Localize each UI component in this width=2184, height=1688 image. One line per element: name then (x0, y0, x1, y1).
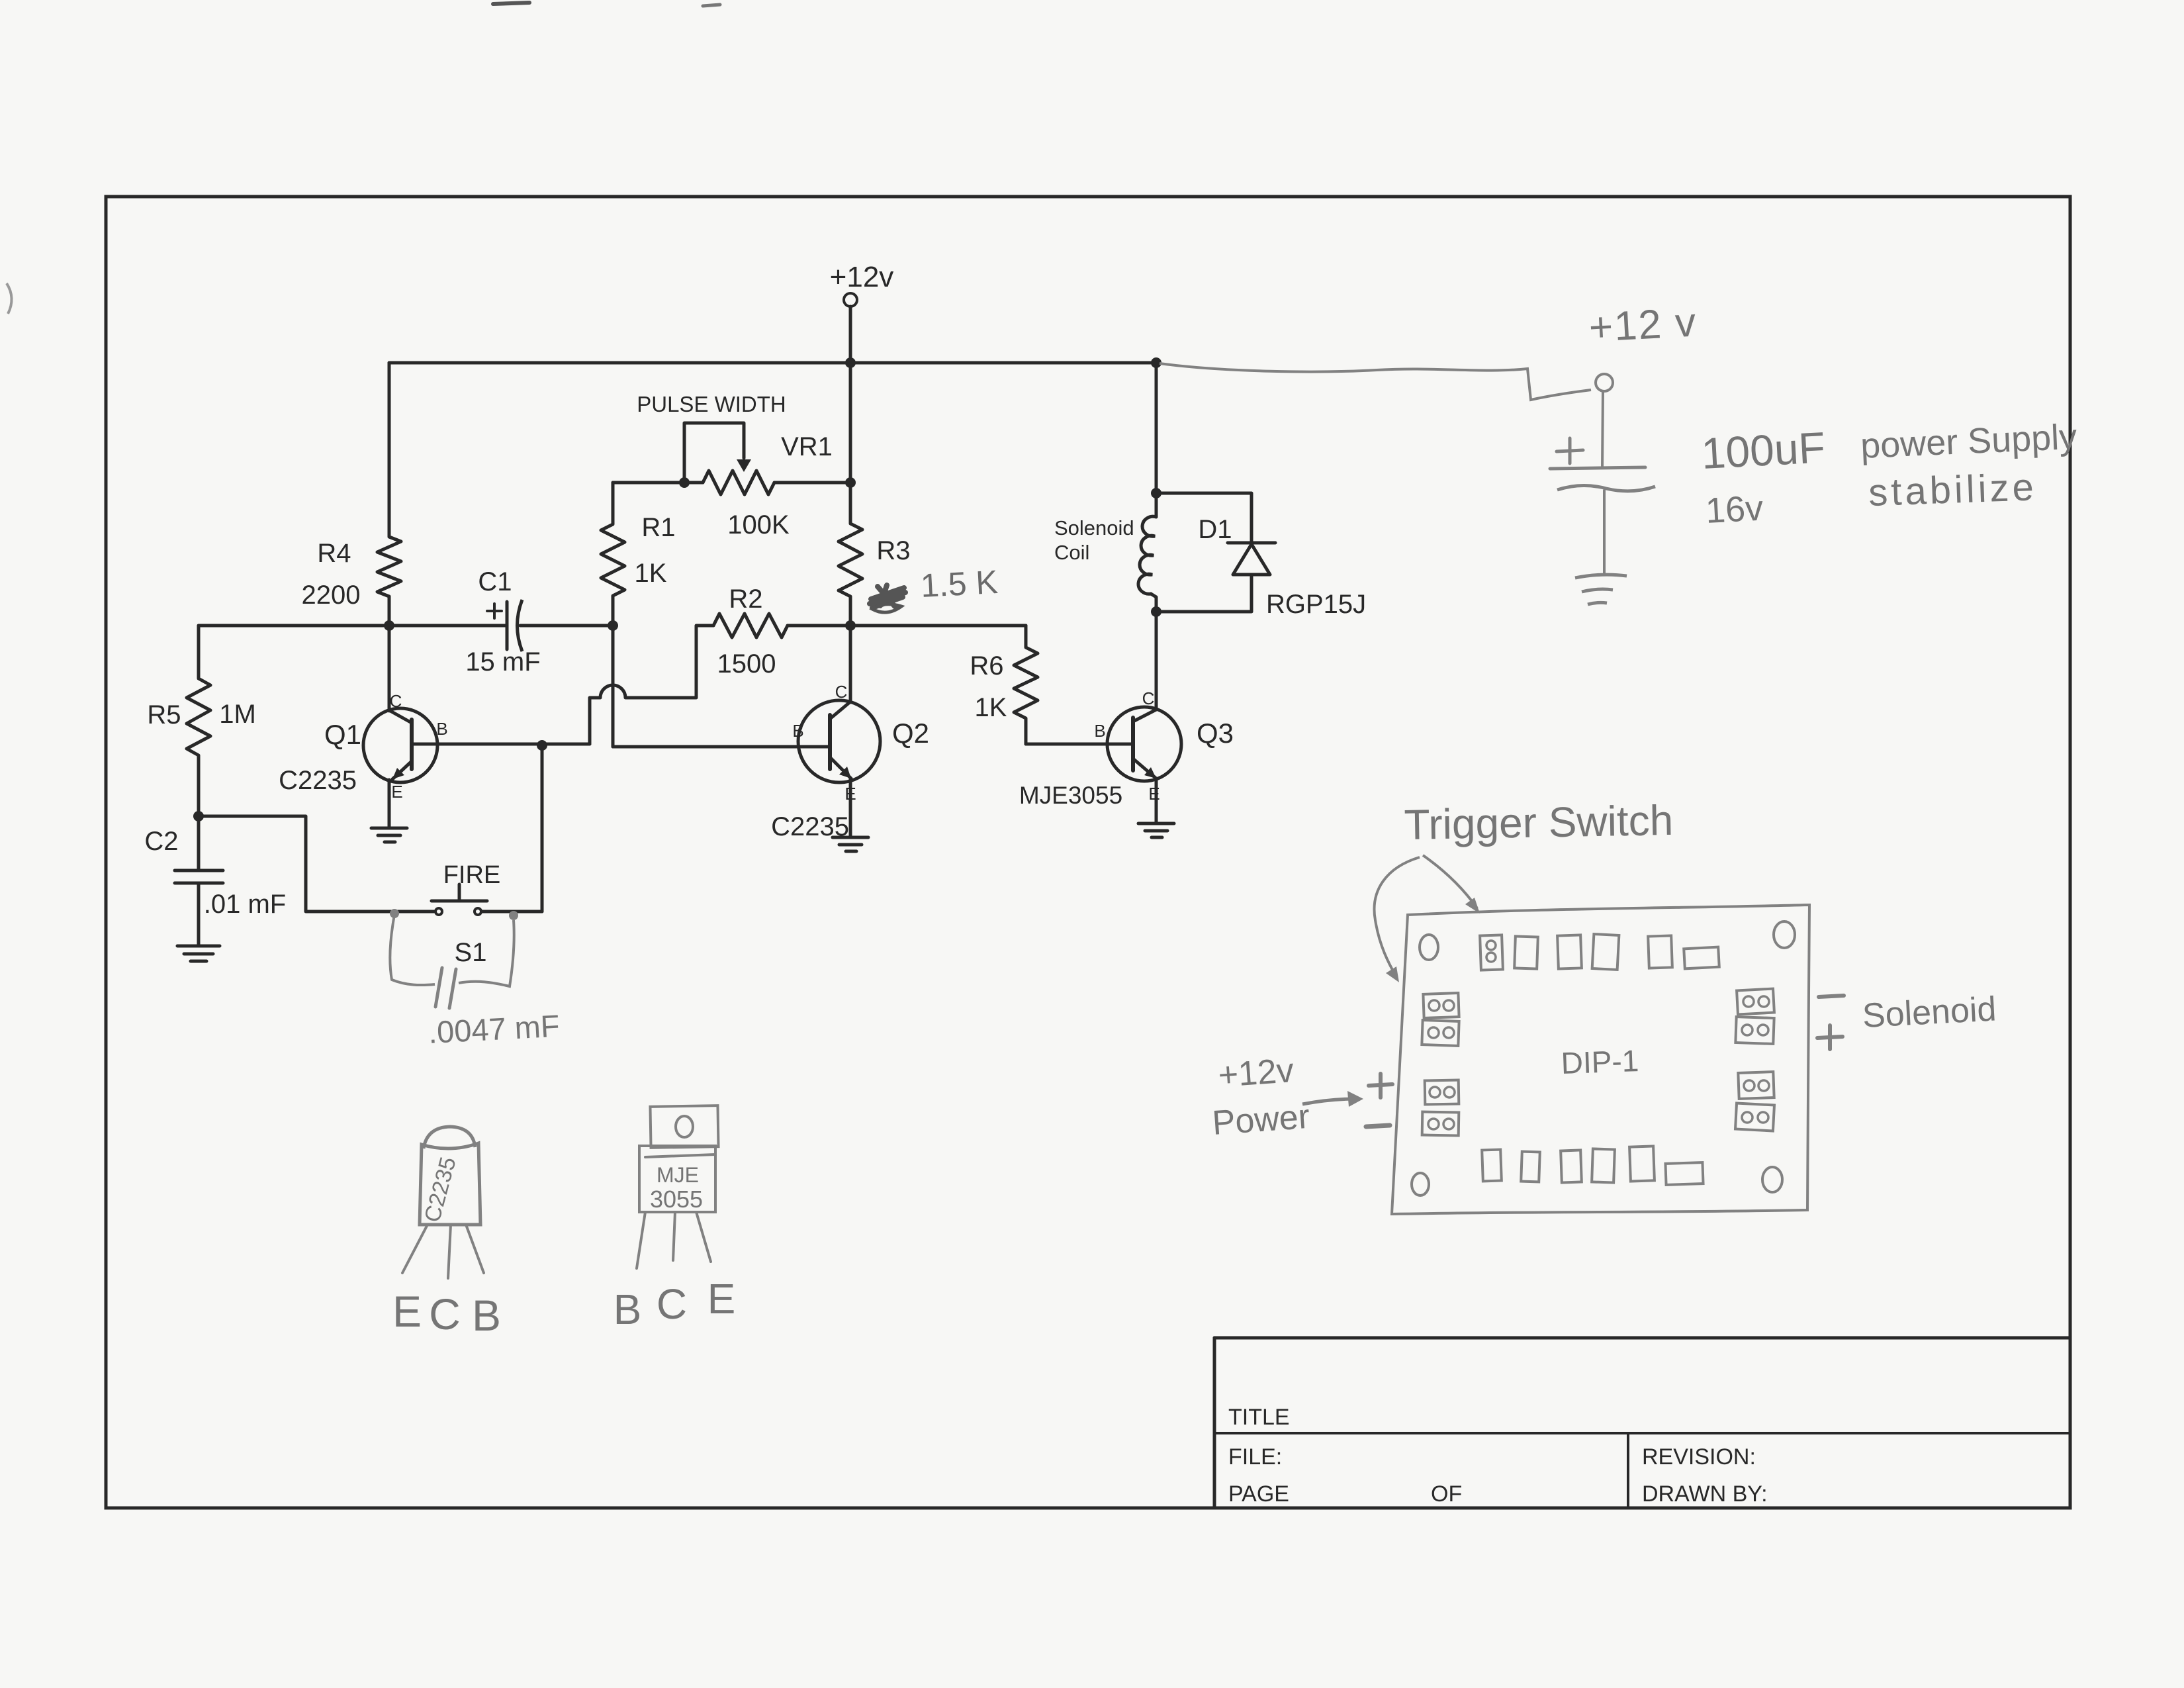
PCB top pad 6 (wide) (1684, 947, 1719, 969)
svg-text:.01 mF: .01 mF (204, 890, 286, 919)
svg-text:E: E (392, 1287, 422, 1336)
label C1 value 15 mF (465, 647, 540, 677)
label R3 (876, 536, 910, 565)
wire solenoid top lead (1155, 493, 1158, 517)
PCB top pad 4 (1592, 934, 1619, 970)
PCB right pad 4 (1735, 1103, 1774, 1131)
svg-text:B: B (614, 1286, 642, 1333)
resistor R1 (601, 483, 625, 626)
junction rail at R3 column (845, 357, 856, 368)
svg-text:Coil: Coil (1054, 541, 1089, 564)
pencil minus solenoid (1819, 996, 1844, 997)
pencil terminal circle (1596, 374, 1613, 391)
pencil capacitor 100uF (1550, 467, 1655, 491)
label R5 value 1M (219, 700, 256, 729)
PCB left pad 3 (+12v +) (1425, 1080, 1459, 1105)
PCB bottom pad 6 (wide) (1665, 1162, 1703, 1185)
handwritten Solenoid (right) (1862, 990, 1997, 1035)
label Q2 (892, 718, 929, 749)
pencil blob S1 right tap (509, 911, 518, 920)
svg-text:R1: R1 (641, 513, 675, 542)
PCB left pad 2 (1422, 1020, 1459, 1046)
handwritten R3 value 1.5 K (920, 563, 999, 604)
diode D1 (1228, 543, 1275, 575)
wire VR1 right lead (774, 481, 850, 485)
sketch C2235 leg E (402, 1225, 428, 1273)
label Q3 type MJE3055 (1019, 782, 1122, 809)
svg-text:+12v: +12v (1217, 1051, 1295, 1095)
sketch MJE3055 leg C (673, 1212, 675, 1260)
title block label REVISION: (1642, 1444, 1756, 1470)
ground below Q3 (1138, 823, 1174, 837)
label R6 value 1K (975, 693, 1007, 722)
label R1 value 1K (635, 559, 667, 588)
svg-text:E: E (391, 782, 402, 802)
sketch MJE3055 pin letter B (614, 1286, 642, 1333)
label DIP-1 (1561, 1043, 1639, 1080)
label R2 (729, 585, 762, 614)
capacitor C1 (507, 600, 522, 651)
svg-text:1.5 K: 1.5 K (920, 563, 999, 604)
wire node A left (R5 to C1) (199, 624, 507, 628)
label FIRE (443, 861, 501, 889)
PCB bottom pad 5 (1629, 1146, 1655, 1181)
pin label Q3 B (1094, 721, 1105, 741)
svg-text:FILE:: FILE: (1228, 1444, 1282, 1470)
node +12v terminal (844, 293, 857, 306)
pin label Q2 C (835, 682, 848, 702)
capacitor S1 pencil plates (435, 968, 456, 1008)
pin label Q1 E (391, 782, 402, 802)
ground below C2 (177, 946, 220, 961)
wire Q1 collector (388, 626, 391, 711)
handwritten Trigger Switch (1404, 796, 1674, 849)
label R1 (641, 513, 675, 542)
title block label PAGE (1228, 1481, 1289, 1507)
handwritten +12 v (top right) (1588, 300, 1698, 351)
wire rail to solenoid (1155, 363, 1158, 493)
label R5 (147, 700, 181, 729)
svg-text:D1: D1 (1198, 515, 1232, 544)
wire C2 to ground (197, 883, 201, 946)
label D1 (1198, 515, 1232, 544)
svg-text:B: B (472, 1291, 501, 1340)
svg-text:1K: 1K (975, 693, 1007, 722)
junction solenoid bottom (1151, 606, 1161, 617)
VR1 wiper arrowhead (737, 459, 751, 472)
wire node A right (C1 to R1) (520, 624, 613, 628)
svg-text:C2: C2 (144, 827, 178, 856)
wire Q2 base (613, 745, 830, 749)
PCB right pad 3 (1738, 1072, 1774, 1099)
pencil wire rail to stabilizer cap (1160, 363, 1591, 400)
svg-text:C: C (657, 1280, 687, 1328)
svg-text:VR1: VR1 (781, 432, 833, 461)
solenoid coil (1138, 516, 1156, 597)
label Q2 type C2235 (771, 812, 849, 841)
junction node A at R4 bottom (384, 620, 394, 631)
handwritten 100uF (1700, 422, 1827, 478)
svg-text:OF: OF (1431, 1481, 1462, 1507)
label C1 (478, 567, 512, 596)
PCB top pad 1 (trigger header) (1480, 935, 1503, 970)
ground below Q2 (833, 837, 868, 851)
sketch MJE3055 leg E (696, 1212, 711, 1262)
transistor Q1 C2235 (363, 708, 437, 782)
label Q1 (324, 719, 361, 750)
svg-text:R6: R6 (970, 651, 1003, 680)
svg-text:PULSE WIDTH: PULSE WIDTH (637, 392, 786, 416)
pencil swirl arrow (1375, 857, 1420, 982)
svg-text:1K: 1K (635, 559, 667, 588)
potentiometer VR1 (703, 471, 774, 494)
pencil plus power (1369, 1074, 1392, 1098)
svg-text:16v: 16v (1704, 489, 1764, 531)
pencil capacitor 100uF plus sign (1557, 438, 1583, 463)
wire Q1 base drop (541, 745, 544, 912)
svg-text:Q3: Q3 (1197, 718, 1234, 749)
svg-text:100K: 100K (727, 510, 790, 539)
wire R5 bottom to C2 (197, 816, 201, 870)
wire Q3 emitter (1155, 780, 1158, 823)
pin label Q1 C (390, 691, 402, 711)
title block label TITLE (1228, 1405, 1290, 1430)
svg-text:Trigger Switch: Trigger Switch (1404, 796, 1674, 849)
wire R2 to Q2 collector node (788, 624, 850, 628)
svg-text:+12 v: +12 v (1588, 300, 1698, 351)
svg-text:15 mF: 15 mF (465, 647, 540, 677)
handwritten power Supply (1860, 417, 2078, 466)
PCB top pad 5 (1648, 935, 1672, 968)
junction rail at solenoid column (1151, 357, 1161, 368)
label VR1 value 100K (727, 510, 790, 539)
label R4 (317, 539, 351, 568)
PCB board outline (1392, 905, 1809, 1214)
svg-text:Solenoid: Solenoid (1862, 990, 1997, 1035)
svg-text:C: C (1142, 688, 1155, 708)
resistor R6 (1014, 626, 1038, 744)
resistor R4 (377, 363, 401, 626)
svg-text:Solenoid: Solenoid (1054, 516, 1134, 539)
label C2 (144, 827, 178, 856)
PCB bottom pad 3 (1561, 1150, 1582, 1182)
scan mark left edge (7, 283, 12, 314)
label R6 (970, 651, 1003, 680)
pencil ground below cap (1575, 575, 1627, 604)
handwritten 16v (1704, 489, 1764, 531)
svg-text:MJE: MJE (657, 1163, 699, 1187)
label C2 value .01 mF (204, 890, 286, 919)
wire +12v terminal to rail (849, 306, 852, 363)
wire R1 top to VR1 (613, 481, 684, 485)
title block label DRAWN BY: (1642, 1481, 1768, 1507)
svg-text:PAGE: PAGE (1228, 1481, 1289, 1507)
resistor R3 (839, 363, 862, 626)
capacitor C2 (175, 870, 223, 883)
label D1 type RGP15J (1266, 590, 1366, 619)
svg-text:R4: R4 (317, 539, 351, 568)
wire D1 bottom branch (1156, 575, 1251, 612)
label Q1 type C2235 (279, 766, 357, 795)
pencil arrow to board pad (1423, 855, 1480, 914)
wire C2 node to FIRE switch (199, 816, 434, 912)
svg-text:DIP-1: DIP-1 (1561, 1043, 1639, 1080)
PCB left pad 4 (+12v -) (1422, 1112, 1459, 1136)
title block label OF (1431, 1481, 1462, 1507)
svg-text:B: B (436, 719, 447, 739)
svg-text:.0047 mF: .0047 mF (428, 1008, 561, 1050)
svg-text:E: E (707, 1275, 736, 1323)
pin label Q3 E (1148, 784, 1160, 804)
svg-text:S1: S1 (455, 938, 487, 967)
scan mark top (493, 3, 720, 6)
svg-text:1M: 1M (219, 700, 256, 729)
wire +12v rail (389, 361, 1156, 365)
pencil blob S1 left tap (390, 909, 399, 918)
svg-text:100uF: 100uF (1700, 422, 1827, 478)
handwritten Power (1211, 1098, 1311, 1143)
junction R5 bottom / C2 top (193, 811, 204, 821)
resistor R5 (187, 626, 210, 816)
svg-text:3055: 3055 (650, 1186, 703, 1213)
sketch C2235 leg C (448, 1225, 451, 1278)
wire Q2 collector (849, 626, 852, 702)
wire Q1 base (412, 743, 590, 746)
wire Q1 emitter (388, 780, 391, 828)
ground below Q1 (371, 828, 407, 842)
svg-text:stabilize: stabilize (1868, 465, 2038, 514)
handwritten stabilize (1868, 465, 2038, 514)
PCB bottom pad 1 (1482, 1150, 1502, 1182)
label R2 value 1500 (717, 649, 776, 679)
wire Q1 base jog up (590, 698, 600, 744)
svg-text:C1: C1 (478, 567, 512, 596)
wire Q2 collector node to R6 (850, 624, 1026, 628)
sketch MJE3055 body (639, 1146, 715, 1212)
label PULSE WIDTH (637, 392, 786, 416)
PCB bottom pad 2 (1521, 1152, 1540, 1182)
junction VR1 left (679, 477, 690, 488)
title block box (1214, 1338, 2070, 1508)
sketch C2235 pin letter B (472, 1291, 501, 1340)
svg-text:B: B (1094, 721, 1105, 741)
switch FIRE pushbutton (432, 884, 487, 915)
resistor R2 (713, 614, 788, 637)
sketch MJE3055 pin letter E (707, 1275, 736, 1323)
scribbled out 1K (870, 585, 905, 612)
junction node A at R1 bottom (608, 620, 618, 631)
VR1 wiper strap (684, 423, 744, 483)
label Solenoid Coil (1054, 516, 1134, 564)
page frame border (106, 197, 2070, 1508)
junction VR1 right at +12v column (845, 477, 856, 488)
sketch C2235 pin letter C (429, 1289, 461, 1338)
junction Q1 base / switch column (537, 740, 547, 751)
title block label FILE: (1228, 1444, 1282, 1470)
svg-text:1500: 1500 (717, 649, 776, 679)
PCB top pad 3 (1557, 935, 1582, 968)
junction solenoid top (1151, 488, 1161, 498)
node +12v label (830, 261, 894, 293)
wire VR1 left lead (684, 481, 703, 485)
sketch MJE3055 leg B (637, 1212, 645, 1268)
pencil wire S1 right (459, 920, 514, 986)
svg-text:C: C (390, 691, 402, 711)
svg-text:C2235: C2235 (771, 812, 849, 841)
svg-text:R5: R5 (147, 700, 181, 729)
sketch MJE3055 pin letter C (657, 1280, 687, 1328)
svg-text:R3: R3 (876, 536, 910, 565)
PCB left pad 1 (1423, 993, 1459, 1018)
pin label Q2 B (792, 721, 803, 741)
transistor Q3 MJE3055 (1107, 707, 1181, 781)
PCB right pad 2 (solenoid +) (1735, 1017, 1774, 1044)
svg-text:Power: Power (1211, 1098, 1311, 1143)
wire D1 top branch (1156, 493, 1251, 543)
pencil wire cap to ground (1603, 491, 1606, 573)
svg-text:E: E (1148, 784, 1160, 804)
label Q3 (1197, 718, 1234, 749)
label S1 (455, 938, 487, 967)
svg-text:C: C (835, 682, 848, 702)
PCB top pad 2 (1514, 936, 1538, 968)
handwritten +12v (left) (1217, 1051, 1295, 1095)
wire jog to R2 (625, 626, 713, 698)
label C1 plus sign (487, 604, 502, 618)
svg-text:MJE3055: MJE3055 (1019, 782, 1122, 809)
svg-text:R2: R2 (729, 585, 762, 614)
pin label Q2 E (844, 784, 856, 804)
label R4 value 2200 (302, 581, 361, 610)
sketch MJE3055 label (650, 1163, 703, 1213)
pencil arrow to power pads (1302, 1091, 1363, 1107)
wire hop over Q2 base drop (600, 685, 625, 698)
pencil minus power (1366, 1125, 1390, 1127)
svg-text:RGP15J: RGP15J (1266, 590, 1366, 619)
sketch C2235 package body (420, 1127, 480, 1225)
PCB bottom pad 4 (1592, 1149, 1615, 1182)
transistor Q2 C2235 (798, 700, 880, 782)
svg-text:Q2: Q2 (892, 718, 929, 749)
svg-text:Q1: Q1 (324, 719, 361, 750)
junction Q2 collector node (845, 620, 856, 631)
svg-text:FIRE: FIRE (443, 861, 501, 889)
label VR1 (781, 432, 833, 461)
handwritten .0047 mF (428, 1008, 561, 1050)
PCB corner hole top left (1420, 935, 1438, 960)
wire Q2 emitter (849, 779, 852, 837)
sketch MJE3055 tab (650, 1105, 718, 1148)
svg-text:TITLE: TITLE (1228, 1405, 1290, 1430)
wire Q3 collector (1155, 612, 1158, 709)
pin label Q1 B (436, 719, 447, 739)
wire Q2 base drop (612, 626, 615, 747)
pencil plus solenoid (1817, 1025, 1843, 1049)
svg-text:E: E (844, 784, 856, 804)
sketch C2235 leg B (466, 1225, 484, 1273)
svg-text:REVISION:: REVISION: (1642, 1444, 1756, 1470)
svg-text:+12v: +12v (830, 261, 894, 293)
sketch C2235 pin letter E (392, 1287, 422, 1336)
wire switch to Q1 base column (482, 910, 542, 914)
svg-text:B: B (792, 721, 803, 741)
PCB corner hole bottom left (1412, 1173, 1429, 1196)
svg-text:C2235: C2235 (279, 766, 357, 795)
wire solenoid bottom lead (1155, 597, 1158, 612)
svg-text:2200: 2200 (302, 581, 361, 610)
svg-text:C: C (429, 1289, 461, 1338)
pin label Q3 C (1142, 688, 1155, 708)
PCB corner hole top right (1774, 921, 1795, 948)
svg-text:DRAWN BY:: DRAWN BY: (1642, 1481, 1768, 1507)
PCB right pad 1 (solenoid -) (1737, 989, 1774, 1015)
wire R6 to Q3 base (1026, 743, 1133, 746)
sketch C2235 label (420, 1154, 461, 1225)
pencil wire S1 left (390, 915, 435, 985)
PCB corner hole bottom right (1762, 1167, 1782, 1192)
pencil wire terminal to cap (1602, 391, 1603, 468)
